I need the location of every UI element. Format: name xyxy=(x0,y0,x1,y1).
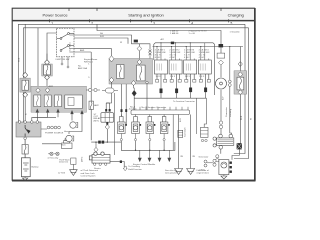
spark plug connector 4 xyxy=(204,88,207,93)
mid FL fuse box 2 xyxy=(137,65,146,81)
top border section tick 2 xyxy=(96,8,98,11)
relay strip connector diamond 1 xyxy=(36,88,40,93)
svg-text:1 IAB 06: 1 IAB 06 xyxy=(170,32,179,35)
relay strip fuse 3 xyxy=(55,95,62,107)
mid-left ground xyxy=(70,170,78,176)
ground wire B2 xyxy=(190,115,192,169)
svg-text:Generator: Generator xyxy=(199,156,209,159)
relay strip relay box xyxy=(65,95,83,109)
fuse AM2 chain2 diamond top xyxy=(45,60,50,65)
svg-text:IGNITION SW: IGNITION SW xyxy=(56,59,71,61)
starter relay box xyxy=(101,113,114,123)
mid FL diamond bottom left xyxy=(109,78,114,83)
junction block pin 3 xyxy=(31,121,34,124)
junction connector bar xyxy=(131,110,190,115)
wire relay to starter xyxy=(106,129,108,142)
svg-text:To Power: To Power xyxy=(69,42,72,51)
title band separator thick line xyxy=(12,20,255,22)
svg-text:4 IGC: 4 IGC xyxy=(184,57,190,59)
injector feed stubs xyxy=(121,115,164,117)
fusible link MAIN fuse xyxy=(22,80,28,90)
cam sensor connector xyxy=(178,130,183,137)
svg-text:4: 4 xyxy=(191,22,193,26)
svg-text:B-O: B-O xyxy=(180,118,182,122)
page background xyxy=(0,0,267,189)
mid connector pair small xyxy=(228,80,231,86)
relay side pin 1 xyxy=(121,109,123,112)
relay strip arrow 2 xyxy=(46,109,49,113)
mid FL bottom left drop xyxy=(106,83,111,104)
spare drop xyxy=(196,98,198,134)
alternator inline connector circles xyxy=(216,155,219,162)
svg-text:w/ TDS: w/ TDS xyxy=(58,173,66,175)
relay side wires xyxy=(122,84,127,124)
right FL top diamond feed xyxy=(238,62,242,67)
igt collector bus xyxy=(134,97,206,99)
ignition coil no4 xyxy=(198,43,211,74)
starter pin c xyxy=(105,163,107,165)
top border section tick 1 xyxy=(68,8,70,11)
svg-text:Deterrent: Deterrent xyxy=(59,161,69,164)
wire fuse chain 1 vertical xyxy=(24,24,26,122)
svg-text:Power Source: Power Source xyxy=(42,13,68,18)
junction block pin 2 xyxy=(24,121,27,124)
svg-text:1 4 3: 1 4 3 xyxy=(185,76,191,78)
wire am1 diamond stub xyxy=(138,44,140,46)
coil bottom pin numbers xyxy=(156,76,205,78)
wire junction h117 xyxy=(32,116,56,118)
generator note circles xyxy=(204,160,207,167)
grid tick b xyxy=(89,19,91,22)
svg-text:w/ Theft Deterrent: w/ Theft Deterrent xyxy=(81,169,99,172)
battery ground xyxy=(22,177,27,181)
svg-text:W-B: W-B xyxy=(19,57,21,62)
mid FL feed wire xyxy=(74,49,112,56)
battery box xyxy=(21,158,30,177)
wire strip arrow2 down xyxy=(33,113,48,118)
ecu arrow 3 xyxy=(158,150,161,161)
wire vertical to relay strip xyxy=(37,28,39,91)
frame right heavy edge xyxy=(254,8,256,181)
wire fl right drop xyxy=(230,47,241,144)
ground symbol 2 xyxy=(187,169,195,175)
coil output wires to plugs xyxy=(157,74,209,98)
charging inline connector circles xyxy=(219,121,222,129)
charging chain wire xyxy=(220,39,222,135)
svg-text:1 4 3: 1 4 3 xyxy=(156,76,162,78)
ignition switch stub pins xyxy=(61,63,69,68)
mid FL diamond top 2 xyxy=(137,60,142,65)
svg-text:(M/T): (M/T) xyxy=(82,157,84,162)
wire coil bracket bus xyxy=(154,43,215,95)
grid tick a xyxy=(48,19,50,22)
wire main bus top y28 xyxy=(23,27,248,29)
coil connector pair 4 xyxy=(199,80,210,83)
charging chain diamond xyxy=(218,60,223,65)
mid FL diamond top left xyxy=(109,56,114,62)
wire regulator to alternator xyxy=(221,149,240,160)
grid tick f xyxy=(228,19,230,22)
wire strip arrow3 down xyxy=(57,113,59,118)
svg-text:Engine Control Module: Engine Control Module xyxy=(133,163,156,166)
wire diamond2 to no1 junction xyxy=(133,86,136,91)
wire horn1 feed xyxy=(71,114,73,120)
starter relay feed wires xyxy=(106,103,109,109)
mid FL gray block xyxy=(109,59,153,85)
ignition switch IG box (dashed) xyxy=(56,28,98,68)
grid tick e xyxy=(189,19,191,22)
injector bottom pins xyxy=(121,134,164,139)
lamp symbol 1 xyxy=(48,152,53,155)
svg-text:1: 1 xyxy=(51,22,53,26)
wire diamond to FL box xyxy=(138,51,140,59)
regulator stripes box xyxy=(217,138,234,145)
bus tap dots xyxy=(156,42,230,47)
output black connector xyxy=(237,143,242,149)
wire ig1 row y38 xyxy=(74,38,128,44)
wire starter feed horizontal xyxy=(91,141,121,143)
svg-text:5: 5 xyxy=(231,22,233,26)
relay side pin 2 xyxy=(125,109,127,112)
ground bus junction dots xyxy=(135,150,165,151)
page arrow starter xyxy=(123,166,127,171)
inline connector on AM1 wire xyxy=(134,40,138,43)
engine room relay block gray strip xyxy=(31,86,87,112)
wire ig2 row y30.5 xyxy=(97,24,221,39)
injector side pins xyxy=(126,124,170,126)
grid tick d xyxy=(150,19,152,22)
svg-text:3: 3 xyxy=(153,22,155,26)
regulator terminal tl xyxy=(219,134,223,138)
wire right edge vertical 2 xyxy=(234,28,249,159)
wire coil bus y46.5 xyxy=(153,46,244,48)
fusible link chain1 connector diamond top xyxy=(23,72,28,78)
svg-text:and Door Lock: and Door Lock xyxy=(81,172,96,175)
svg-text:Control System: Control System xyxy=(81,174,96,177)
battery plates xyxy=(23,163,29,171)
svg-text:w/ Security: w/ Security xyxy=(48,157,60,160)
wire left vertical A xyxy=(17,24,19,122)
ground wire B1 xyxy=(178,115,180,169)
top border section tick 3 xyxy=(220,8,222,11)
wire ig sw st down xyxy=(47,33,57,60)
right FL gray block xyxy=(234,71,247,94)
mid cluster component a xyxy=(86,88,100,91)
starter pin b xyxy=(99,163,101,165)
generator left connector circles xyxy=(213,159,216,166)
relay strip fuse 1 xyxy=(34,95,41,107)
mid FL bottom pin xyxy=(146,81,148,83)
charging left box bits xyxy=(201,139,207,141)
spark plug connector 2 xyxy=(175,89,178,94)
horn 2 xyxy=(66,135,74,141)
wire am1 row y35 xyxy=(74,35,150,49)
relay strip arrow 1 xyxy=(36,109,39,113)
wire into starter xyxy=(95,142,97,153)
svg-text:Warning: Warning xyxy=(229,108,232,117)
junction dot starter drop xyxy=(95,142,96,143)
ignition switch pin stubs right xyxy=(69,35,74,52)
injector ground bus xyxy=(121,141,175,151)
charging chain top connector xyxy=(219,44,224,47)
svg-text:Generator: Generator xyxy=(225,107,228,117)
svg-text:Horn: Horn xyxy=(64,130,70,133)
svg-text:1 v. 06: 1 v. 06 xyxy=(189,33,196,35)
svg-text:4 IGC: 4 IGC xyxy=(155,57,161,59)
wire ig switch feed down xyxy=(46,54,48,91)
svg-text:1 4 3: 1 4 3 xyxy=(170,76,176,78)
junction block pin bottom xyxy=(24,137,27,140)
injector pin dots xyxy=(120,139,165,141)
relay strip connector diamond 2 xyxy=(45,88,49,93)
ecu arrow 4 xyxy=(168,150,171,161)
ignition coil no1 xyxy=(155,43,168,74)
injector no2 xyxy=(132,117,140,134)
ecu arrow 2 xyxy=(148,150,151,161)
fusible link FL block gray xyxy=(20,78,30,92)
small component box xyxy=(71,158,76,164)
svg-text:AM2: AM2 xyxy=(94,104,99,107)
fuse AM2 gray block xyxy=(42,64,53,76)
spark plug connector 1 xyxy=(160,89,163,94)
ignition switch contact 1 xyxy=(57,33,75,40)
connector pair b xyxy=(54,126,60,129)
frame bottom heavy edge xyxy=(12,180,256,182)
junction block pin 4 xyxy=(36,121,39,124)
coil connector pair 3 xyxy=(185,80,196,83)
coil connector pair 2 xyxy=(170,80,181,83)
wire component to ground xyxy=(72,164,74,169)
fuse AM2 box xyxy=(44,65,51,75)
wire right edge vertical 1 xyxy=(234,24,245,153)
svg-text:B-R: B-R xyxy=(100,36,104,38)
ignition switch bottom stubs xyxy=(62,57,68,66)
regulator side terminal 1 xyxy=(213,137,216,140)
spark plug connector 3 xyxy=(189,88,192,93)
regulator terminal tr xyxy=(229,134,233,138)
right FL fuse xyxy=(237,77,244,90)
grid tick c xyxy=(130,19,132,22)
svg-text:1 4 3: 1 4 3 xyxy=(199,76,205,78)
noise filter circle xyxy=(216,78,227,89)
wire junction pin3 stub xyxy=(31,117,33,122)
mid cluster component b xyxy=(102,88,118,93)
starter motor assembly xyxy=(89,152,110,163)
mid FL fuse box 1 xyxy=(117,65,125,79)
wire note circles to generator xyxy=(207,162,213,164)
svg-text:AM2 30A: AM2 30A xyxy=(78,67,88,70)
wire strip arrow1 to junction pin4 xyxy=(36,113,38,122)
wire starter out right xyxy=(110,162,124,168)
junction bar stubs xyxy=(134,107,188,110)
junction block pin 1 xyxy=(18,121,21,124)
starter input diamond xyxy=(94,147,98,152)
svg-text:Camshaft: Camshaft xyxy=(184,127,187,137)
starter relay output diamond xyxy=(105,125,109,130)
regulator terminal bl xyxy=(219,146,223,150)
svg-text:Battery: Battery xyxy=(32,166,40,169)
title band fill xyxy=(12,8,254,20)
wire junction to theft motor xyxy=(42,143,61,145)
charging small box feed xyxy=(204,98,206,127)
ignition switch contact 2 xyxy=(60,45,74,52)
starter pin a xyxy=(94,163,96,165)
wire ig2 fuse drop xyxy=(74,52,91,140)
ecu arrow 1 xyxy=(138,150,141,161)
injector no4 xyxy=(160,117,168,134)
svg-text:w/ A/C: w/ A/C xyxy=(199,169,206,172)
wire speck labels xyxy=(19,57,253,122)
relay strip arrow 3 xyxy=(56,109,59,113)
relay strip arrow 5 xyxy=(80,110,83,114)
lamp symbol 2 xyxy=(54,152,59,155)
connector pair a xyxy=(47,126,53,129)
wire horn2 feed xyxy=(69,114,82,134)
generator right pins xyxy=(230,162,232,173)
svg-text:AM1: AM1 xyxy=(80,49,85,52)
charging left small box xyxy=(201,127,209,137)
junction block internal switch xyxy=(25,125,30,137)
wire left vertical B xyxy=(22,28,24,122)
wire junction to pairs xyxy=(41,128,47,130)
svg-text:POWER SOURCE: POWER SOURCE xyxy=(45,133,64,135)
starter relay bottom pin xyxy=(106,122,108,125)
mid FL diamond bottom 2 xyxy=(131,81,136,86)
fusible link chain1 diamond bottom xyxy=(23,92,28,97)
starter feed connector pair xyxy=(98,141,104,144)
regulator side terminal 2 xyxy=(213,144,216,147)
horn 1 xyxy=(70,122,78,128)
fuse AM2 diamond bottom xyxy=(45,75,50,80)
theft deterrent motor xyxy=(62,139,73,149)
svg-text:4 IGC: 4 IGC xyxy=(169,57,175,59)
svg-text:(M/T): (M/T) xyxy=(94,120,99,122)
svg-text:engine block: engine block xyxy=(197,172,210,174)
svg-text:wire ground: wire ground xyxy=(165,171,177,174)
generator ground xyxy=(221,175,227,179)
starter out pin xyxy=(120,160,122,163)
svg-text:Charging: Charging xyxy=(228,13,244,18)
svg-text:1 Snowlite: 1 Snowlite xyxy=(230,31,241,34)
svg-text:Horn: Horn xyxy=(61,144,67,147)
svg-text:No. 2 Junction Connector: No. 2 Junction Connector xyxy=(142,106,167,109)
svg-text:Hold Function: Hold Function xyxy=(128,168,142,171)
svg-text:2: 2 xyxy=(91,22,93,26)
generator box xyxy=(219,160,229,175)
ignition coil no3 xyxy=(184,43,197,74)
coil feed diamond xyxy=(137,46,142,51)
relay strip arrow 4 xyxy=(70,110,73,114)
ground symbol 1 xyxy=(175,169,183,175)
mt wire vertical xyxy=(114,93,116,155)
injector no1 xyxy=(118,117,126,134)
starter relay pin square 1 xyxy=(105,109,107,112)
main junction block J/B gray xyxy=(16,122,41,137)
right FL diamond bottom xyxy=(238,90,243,95)
right FL diamond top xyxy=(238,72,243,77)
charging chain box xyxy=(217,53,225,58)
AM2 vertical fuse box xyxy=(89,101,93,110)
no1 junction connector diamond xyxy=(132,90,136,96)
mid FL right drop to bar xyxy=(146,84,148,110)
wire ig1 twisted marks xyxy=(149,50,152,59)
relay strip fuse 2 xyxy=(44,95,51,107)
coil connector pair 1 xyxy=(156,80,167,83)
svg-text:To Junction Connector: To Junction Connector xyxy=(173,100,195,103)
bus black connector xyxy=(171,42,174,45)
svg-text:W-B: W-B xyxy=(241,115,243,120)
fusible link on battery wire xyxy=(22,145,28,155)
starter relay pin square 2 xyxy=(109,109,111,112)
igt bus drop xyxy=(133,96,135,110)
svg-text:Starting and Ignition: Starting and Ignition xyxy=(128,13,164,18)
ignition coil no2 xyxy=(169,43,182,74)
bar extra drop xyxy=(172,115,174,151)
wire main bus top y24 xyxy=(18,23,245,25)
junction dot relay feed xyxy=(107,142,108,143)
outer frame border xyxy=(12,8,254,180)
coil internal symbols xyxy=(157,64,205,71)
svg-text:B-Y: B-Y xyxy=(223,96,225,100)
wire junction to battery xyxy=(24,140,26,158)
injector no3 xyxy=(146,117,154,134)
svg-text:4 IGC: 4 IGC xyxy=(199,57,205,59)
svg-text:AM2: AM2 xyxy=(49,85,54,88)
coil pin label texts row xyxy=(155,50,210,60)
